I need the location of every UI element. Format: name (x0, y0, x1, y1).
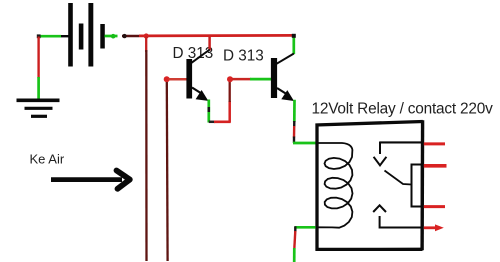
wire red down to ground (37, 37, 39, 79)
switch bottom contact line (380, 226, 422, 228)
wire black segment emitter Q2 drop (293, 121, 295, 127)
wire green emitter Q1 drop (207, 100, 210, 123)
node junction dot base Q2 (227, 76, 233, 82)
wire red up link (228, 101, 231, 123)
battery B1 plate short 1 (79, 24, 84, 50)
node green dot battery right (111, 34, 116, 39)
node dark blob after battery (122, 34, 126, 38)
battery B1 plate long 2 (88, 3, 93, 67)
terminal stub red 1 (424, 142, 445, 145)
wire green into relay coil top (293, 142, 318, 145)
wire green collector Q2 drop (292, 37, 295, 55)
switch top contact stem (379, 142, 381, 155)
wire red bottom link (214, 120, 231, 123)
wire black blip emitter Q1 drop (208, 107, 211, 112)
svg-text:12Volt Relay / contact 220v: 12Volt Relay / contact 220v (312, 100, 494, 117)
terminal stub red 3 (424, 205, 445, 208)
switch blade (385, 171, 412, 185)
wire red base Q2 (232, 78, 251, 81)
wire red top rail (139, 34, 294, 37)
wire green battery right (105, 35, 118, 38)
transistor Q2 emitter arrow (281, 90, 294, 101)
wire red collector Q1 (208, 37, 211, 51)
battery B1 plate short 2 (100, 24, 105, 49)
switch top contact line (380, 141, 422, 143)
terminal stub red 2 (424, 164, 447, 168)
transistor Q1 emitter line (192, 88, 202, 94)
relay box U1 top edge (316, 122, 423, 126)
node corner top rail right (292, 34, 296, 38)
Ke Air arrow head (117, 171, 130, 189)
wire dark segment after battery (122, 35, 139, 38)
ground bar 1 (17, 99, 60, 103)
switch bottom contact stem (379, 216, 381, 229)
transistor Q2 emitter line (277, 88, 287, 94)
wire green to ground (37, 77, 40, 100)
switch top arrowhead (374, 157, 387, 166)
node corner battery left (37, 34, 41, 38)
transistor Q2 collector line (277, 54, 294, 64)
transistor Q1 base bar (186, 59, 192, 99)
switch bottom arrowhead (373, 205, 386, 212)
wire red below junction (145, 36, 147, 52)
wire dark red vertical 2 (166, 82, 169, 261)
relay box U1 bottom edge (316, 248, 423, 251)
relay coil L1 (317, 143, 353, 228)
ground bar 3 (31, 115, 47, 118)
transistor Q1 emitter arrow (196, 90, 209, 101)
svg-text:Ke Air: Ke Air (30, 151, 65, 166)
wire black corner bottom left of relay (294, 226, 296, 232)
svg-text:D 313: D 313 (173, 45, 214, 62)
wire dark red vertical 1 (145, 50, 147, 261)
node junction dot base Q1 (164, 76, 170, 82)
wire black corner bottom link (209, 121, 215, 124)
relay box U1 right edge (420, 120, 424, 250)
transistor Q2 base bar (271, 58, 277, 98)
wire red base Q1 (169, 78, 187, 81)
terminal stub red 4 with arrow (424, 226, 438, 229)
wire dark red up link upper (229, 81, 231, 103)
wire green relay coil bottom (295, 226, 316, 229)
battery B1 plate long 1 (68, 3, 73, 67)
transistor Q1 collector line (192, 50, 210, 63)
wire green to bottom edge (293, 248, 296, 262)
ground bar 2 (25, 107, 53, 110)
wire green emitter Q2 drop (293, 100, 296, 122)
svg-text:D 313: D 313 (223, 48, 264, 65)
wire red below relay bottom corner (294, 231, 295, 249)
switch common rectangle (412, 165, 422, 207)
wire green battery left (38, 35, 61, 38)
wire green base Q2 (250, 78, 271, 81)
relay box U1 left edge (315, 124, 318, 251)
wire black corner into relay top (293, 137, 295, 144)
Ke Air arrow shaft (51, 177, 122, 182)
battery left lead black (61, 35, 69, 37)
wire red segment emitter Q2 drop (293, 126, 296, 138)
node junction top rail (144, 33, 149, 38)
